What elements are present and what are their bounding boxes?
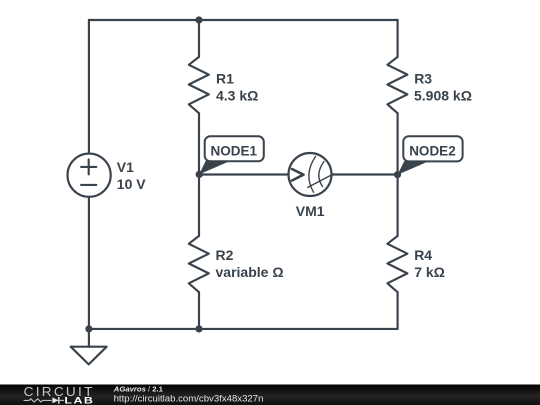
wire left vertical bottom (V1 to bottom rail)	[88, 197, 90, 329]
svg-text:http://circuitlab.com/cbv3fx48: http://circuitlab.com/cbv3fx48x327n	[114, 394, 264, 405]
svg-text:R2: R2	[216, 247, 234, 263]
svg-text:4.3 kΩ: 4.3 kΩ	[216, 87, 258, 103]
svg-text:R4: R4	[414, 247, 432, 263]
wire right column node2 to R4	[397, 175, 399, 236]
node NODE1 callout tail	[199, 161, 228, 175]
wire right column top lead	[397, 20, 399, 57]
V1 minus sign	[81, 184, 96, 186]
voltmeter greater-than mark	[292, 169, 304, 181]
wire left vertical top (V1 to top rail)	[88, 20, 90, 154]
svg-text:10 V: 10 V	[117, 176, 146, 192]
svg-text:AGavros / 2.1: AGavros / 2.1	[113, 384, 164, 393]
voltage source V1 circle	[68, 154, 111, 197]
wire bottom horizontal	[89, 328, 398, 330]
resistor R1	[189, 57, 209, 113]
wire middle column node1 to R2	[198, 175, 200, 236]
resistor R3	[387, 57, 407, 113]
voltmeter meter arc 1	[309, 156, 316, 192]
svg-text:NODE2: NODE2	[409, 143, 456, 158]
svg-text:R3: R3	[414, 71, 432, 87]
svg-text:7 kΩ: 7 kΩ	[414, 264, 445, 280]
ground symbol	[71, 347, 107, 365]
voltmeter meter arc 2	[319, 162, 324, 187]
wire right column R4 to bottom rail	[397, 292, 399, 329]
node NODE1 callout box	[205, 136, 264, 161]
resistor R4	[387, 236, 407, 292]
voltmeter needle	[308, 174, 334, 188]
wire middle column R1 to node1	[198, 113, 200, 174]
resistor R2	[189, 236, 209, 292]
junction dot bottom left	[85, 325, 92, 332]
svg-text:variable Ω: variable Ω	[216, 264, 284, 280]
svg-text:VM1: VM1	[296, 203, 325, 219]
ground stub wire	[88, 329, 90, 347]
svg-text:5.908 kΩ: 5.908 kΩ	[414, 87, 472, 103]
wire node1 to voltmeter	[199, 173, 289, 175]
node NODE2 dot	[394, 171, 401, 178]
voltmeter VM1 circle	[289, 153, 332, 196]
wire top horizontal	[89, 19, 398, 21]
svg-text:V1: V1	[117, 159, 134, 175]
wire middle column top lead	[198, 20, 200, 57]
svg-text:R1: R1	[216, 71, 234, 87]
wire voltmeter to node2	[332, 173, 398, 175]
footer bar	[0, 385, 540, 405]
svg-text:LAB: LAB	[64, 396, 94, 405]
svg-text:NODE1: NODE1	[211, 143, 258, 158]
junction dot bottom middle	[195, 325, 202, 332]
node NODE1 dot	[196, 171, 203, 178]
logo resistor squiggle	[24, 399, 52, 402]
node NODE2 callout box	[403, 136, 462, 161]
node NODE2 callout tail	[398, 161, 427, 174]
junction dot top rail	[195, 16, 202, 23]
V1 plus sign	[81, 159, 96, 174]
logo diode	[52, 397, 58, 403]
wire right column R3 to node2	[397, 113, 399, 174]
wire middle column R2 to bottom rail	[198, 292, 200, 329]
